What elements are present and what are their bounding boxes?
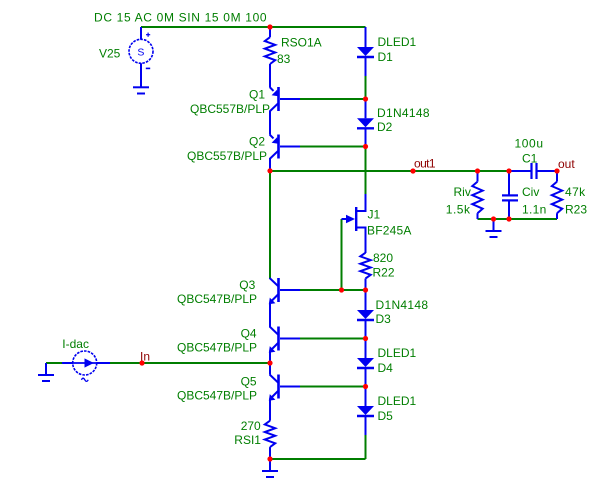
svg-text:DLED1: DLED1: [378, 346, 417, 360]
svg-text:Q3: Q3: [239, 278, 255, 292]
svg-text:BF245A: BF245A: [367, 224, 412, 238]
svg-text:V25: V25: [99, 47, 121, 61]
svg-text:DLED1: DLED1: [378, 35, 417, 49]
svg-text:DC 15 AC 0M SIN 15 0M 100: DC 15 AC 0M SIN 15 0M 100: [94, 11, 267, 25]
svg-text:Civ: Civ: [522, 185, 539, 199]
svg-text:820: 820: [373, 251, 393, 265]
svg-text:QBC557B/PLP: QBC557B/PLP: [187, 149, 267, 163]
svg-text:J1: J1: [368, 208, 381, 222]
svg-text:R22: R22: [373, 266, 395, 280]
svg-text:DLED1: DLED1: [378, 394, 417, 408]
svg-text:Q1: Q1: [249, 88, 265, 102]
svg-text:1.5k: 1.5k: [446, 203, 471, 217]
svg-text:270: 270: [241, 419, 261, 433]
svg-text:D2: D2: [377, 120, 393, 134]
svg-text:47k: 47k: [565, 185, 586, 199]
svg-text:out: out: [558, 157, 575, 171]
svg-text:R23: R23: [565, 203, 587, 217]
svg-text:100u: 100u: [515, 137, 544, 151]
svg-text:D5: D5: [378, 409, 394, 423]
svg-text:Q4: Q4: [241, 327, 257, 341]
svg-text:S: S: [137, 46, 144, 58]
svg-text:QBC547B/PLP: QBC547B/PLP: [177, 341, 257, 355]
svg-text:1.1n: 1.1n: [522, 203, 547, 217]
svg-text:QBC547B/PLP: QBC547B/PLP: [177, 292, 257, 306]
svg-text:D3: D3: [376, 312, 392, 326]
svg-text:Q2: Q2: [249, 135, 265, 149]
svg-text:C1: C1: [522, 152, 538, 166]
svg-text:out1: out1: [414, 157, 436, 171]
svg-text:I-dac: I-dac: [62, 337, 89, 351]
svg-text:D1: D1: [378, 50, 394, 64]
svg-text:QBC547B/PLP: QBC547B/PLP: [177, 389, 257, 403]
svg-text:Riv: Riv: [454, 185, 471, 199]
svg-text:QBC557B/PLP: QBC557B/PLP: [190, 102, 270, 116]
svg-text:RSI1: RSI1: [234, 433, 261, 447]
svg-text:D1N4148: D1N4148: [377, 106, 430, 120]
svg-text:RSO1A: RSO1A: [281, 36, 322, 50]
svg-text:83: 83: [277, 52, 291, 66]
svg-text:D1N4148: D1N4148: [376, 298, 429, 312]
svg-text:D4: D4: [378, 361, 394, 375]
svg-text:Q5: Q5: [241, 375, 257, 389]
